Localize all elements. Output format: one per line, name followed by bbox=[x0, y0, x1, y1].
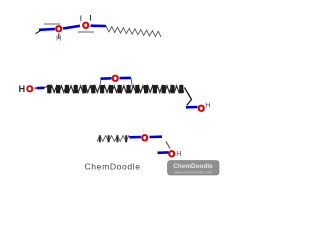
top fragment: tick above O2 bbox=[90, 15, 92, 21]
middle: riser left into amide group bbox=[100, 80, 102, 89]
middle: long chain bbox=[47, 86, 184, 93]
bottom fragment: blue bar 2 bbox=[150, 135, 163, 138]
bottom fragment: blue bar 3 bbox=[158, 151, 169, 154]
top fragment: gray line above bar1 bbox=[44, 23, 60, 25]
chain CH2 dark marks bbox=[49, 85, 181, 94]
svg-text:www.chemdoodle.com: www.chemdoodle.com bbox=[174, 170, 212, 174]
bottom fragment: lead chain bbox=[97, 136, 130, 142]
top fragment: tick below O1 bbox=[58, 34, 60, 40]
top fragment: tick above O2 b bbox=[80, 16, 82, 22]
bottom fragment: connector down bbox=[166, 142, 170, 149]
top fragment: N-bond blue bar 1 bbox=[39, 28, 55, 31]
wire into chain bbox=[44, 86, 47, 88]
svg-text:H: H bbox=[176, 151, 181, 158]
svg-text:O: O bbox=[26, 84, 33, 94]
middle: riser right bbox=[131, 78, 133, 89]
middle tail: descent bbox=[185, 88, 192, 106]
watermark badge bbox=[168, 161, 220, 176]
svg-text:O: O bbox=[168, 149, 175, 159]
middle group: blue bar right bbox=[120, 77, 132, 80]
svg-text:ChemDoodle: ChemDoodle bbox=[85, 161, 141, 171]
bottom fragment: blue bar 1 bbox=[130, 136, 142, 139]
svg-text:O: O bbox=[112, 73, 119, 83]
bottom chain dark marks bbox=[100, 135, 126, 142]
svg-text:H: H bbox=[56, 34, 61, 43]
svg-text:O: O bbox=[198, 103, 205, 113]
svg-text:O: O bbox=[82, 21, 89, 31]
top fragment: blue bar 3 bbox=[91, 24, 107, 27]
top fragment: stub bbox=[36, 30, 42, 33]
middle: N blue bar bbox=[37, 87, 45, 90]
svg-text:H: H bbox=[19, 84, 26, 94]
svg-text:H: H bbox=[205, 102, 210, 109]
middle tail: blue bar bbox=[186, 106, 198, 109]
top fragment: chain zigzag bbox=[106, 26, 161, 37]
top fragment: blue bar 2 bbox=[63, 26, 80, 29]
svg-text:ChemDoodle: ChemDoodle bbox=[173, 163, 213, 170]
svg-text:O: O bbox=[141, 133, 148, 143]
middle group: blue bar left bbox=[101, 77, 112, 80]
top fragment: gray line below O2 bbox=[78, 31, 94, 33]
middle: red bond half bbox=[35, 87, 37, 89]
